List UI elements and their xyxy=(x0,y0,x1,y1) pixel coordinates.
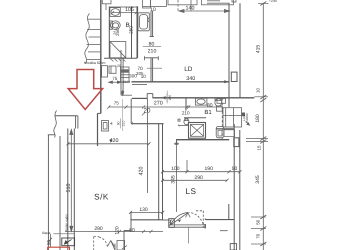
svg-text:250: 250 xyxy=(128,26,133,34)
svg-text:180: 180 xyxy=(255,114,261,123)
svg-text:20: 20 xyxy=(144,108,151,115)
svg-text:90: 90 xyxy=(117,121,121,125)
svg-text:50: 50 xyxy=(129,228,135,234)
svg-text:10: 10 xyxy=(255,88,260,93)
svg-text:80: 80 xyxy=(207,103,213,109)
svg-text:345: 345 xyxy=(255,175,261,184)
svg-text:75: 75 xyxy=(112,76,118,81)
svg-text:S/K: S/K xyxy=(94,193,109,202)
svg-text:80: 80 xyxy=(163,96,167,100)
svg-text:105: 105 xyxy=(125,7,134,13)
svg-text:205: 205 xyxy=(168,95,172,101)
svg-text:50: 50 xyxy=(46,240,51,245)
svg-text:210: 210 xyxy=(182,110,190,115)
svg-text:510: 510 xyxy=(66,184,72,193)
svg-text:290: 290 xyxy=(94,226,103,232)
svg-text:Ateljer sudio: Ateljer sudio xyxy=(65,214,69,232)
svg-text:LS: LS xyxy=(185,187,196,196)
svg-text:120: 120 xyxy=(114,226,120,235)
svg-text:10: 10 xyxy=(141,74,147,79)
svg-text:130: 130 xyxy=(139,207,148,213)
svg-text:15: 15 xyxy=(256,145,261,150)
svg-text:420: 420 xyxy=(139,167,145,176)
svg-text:50: 50 xyxy=(255,219,260,224)
svg-text:20: 20 xyxy=(117,64,121,68)
svg-text:415: 415 xyxy=(256,45,262,54)
svg-text:300: 300 xyxy=(129,74,137,79)
svg-text:LD: LD xyxy=(184,66,193,73)
svg-text:50: 50 xyxy=(232,166,238,172)
svg-text:210: 210 xyxy=(122,120,126,126)
svg-text:24: 24 xyxy=(112,31,116,35)
svg-text:Koralka 60cm: Koralka 60cm xyxy=(84,61,105,65)
svg-text:10: 10 xyxy=(150,7,156,13)
svg-text:340: 340 xyxy=(186,76,195,82)
svg-text:Ø100: Ø100 xyxy=(122,80,130,84)
svg-text:70: 70 xyxy=(255,233,260,238)
svg-text:290: 290 xyxy=(194,175,203,181)
svg-text:80: 80 xyxy=(149,42,155,48)
svg-text:345: 345 xyxy=(171,175,177,184)
svg-text:210: 210 xyxy=(148,48,157,54)
svg-text:Aqua: Aqua xyxy=(42,231,50,235)
svg-text:B1: B1 xyxy=(204,109,212,116)
svg-text:100: 100 xyxy=(171,166,180,172)
svg-text:140: 140 xyxy=(186,6,195,12)
svg-text:270: 270 xyxy=(154,101,163,107)
svg-text:+2,85: +2,85 xyxy=(269,0,277,3)
svg-text:75: 75 xyxy=(114,101,120,106)
svg-text:240/60: 240/60 xyxy=(245,113,249,123)
svg-text:190: 190 xyxy=(205,166,214,172)
